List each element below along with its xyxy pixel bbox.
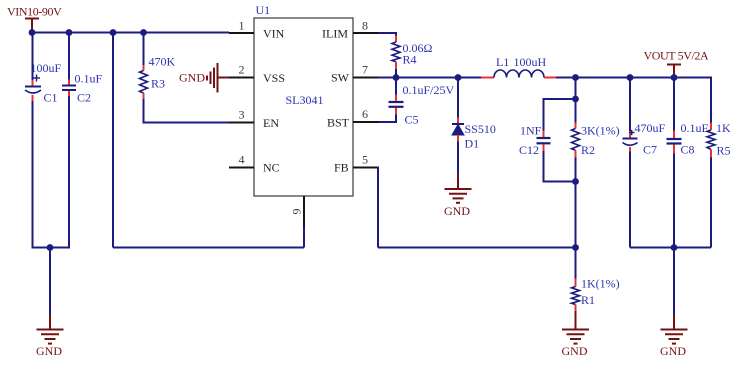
svg-text:0.1uF/25V: 0.1uF/25V: [403, 83, 455, 97]
svg-text:C2: C2: [77, 91, 91, 105]
node VOUT at L1: [572, 74, 579, 81]
svg-text:470K: 470K: [149, 55, 176, 69]
node SW at R4: [393, 74, 400, 81]
svg-text:R4: R4: [403, 53, 417, 67]
wire to ground left: [49, 248, 51, 316]
node C12 bottom: [572, 178, 579, 185]
svg-text:VOUT 5V/2A: VOUT 5V/2A: [644, 49, 710, 63]
svg-text:0.1uF: 0.1uF: [681, 121, 709, 135]
node VIN at down wire: [110, 29, 117, 36]
svg-text:3: 3: [239, 108, 245, 122]
resistor R3: [140, 33, 230, 123]
capacitor C12: [537, 98, 576, 183]
svg-text:1K: 1K: [716, 121, 731, 135]
wire bottom to pin 9: [113, 247, 304, 249]
pin 6 BST: [327, 107, 379, 130]
svg-text:1NF: 1NF: [520, 124, 542, 138]
svg-text:NC: NC: [263, 161, 280, 175]
svg-text:GND: GND: [179, 71, 205, 85]
pin 9 pad: [290, 196, 305, 227]
pin 7 SW: [331, 63, 378, 85]
svg-text:100uF: 100uF: [31, 61, 62, 75]
svg-text:C5: C5: [405, 113, 419, 127]
ground GND at VSS pin: [179, 63, 229, 93]
svg-text:R3: R3: [151, 77, 165, 91]
svg-text:3K(1%): 3K(1%): [581, 124, 620, 138]
node VOUT at C7: [627, 74, 634, 81]
svg-text:9: 9: [290, 209, 304, 215]
ground GND at R1: [562, 311, 590, 358]
svg-text:D1: D1: [465, 137, 480, 151]
svg-text:SS510: SS510: [465, 122, 496, 136]
pin 3 EN: [229, 108, 279, 131]
svg-text:GND: GND: [660, 344, 686, 358]
wire down to GND right: [673, 248, 675, 316]
svg-text:VIN: VIN: [263, 27, 285, 41]
svg-text:VIN10-90V: VIN10-90V: [7, 5, 62, 19]
svg-text:GND: GND: [36, 344, 62, 358]
svg-text:7: 7: [362, 63, 368, 77]
svg-text:C8: C8: [681, 143, 695, 157]
wire C1 C2 ground join: [32, 247, 71, 249]
ground GND at D1: [444, 173, 472, 218]
wire FB from pin 5: [378, 167, 576, 248]
svg-text:1: 1: [239, 19, 245, 33]
svg-text:0.1uF: 0.1uF: [75, 72, 103, 86]
svg-text:8: 8: [362, 19, 368, 33]
ground GND left: [36, 315, 64, 358]
svg-text:C7: C7: [643, 143, 657, 157]
capacitor C1: [25, 33, 41, 248]
svg-text:SW: SW: [331, 71, 350, 85]
node VIN at R3: [140, 29, 147, 36]
wire up to pin 9: [303, 226, 305, 248]
capacitor C5: [379, 78, 404, 123]
svg-text:4: 4: [239, 153, 245, 167]
net label VIN10-90V: [7, 5, 62, 19]
pin 8 ILIM: [322, 19, 378, 41]
svg-text:BST: BST: [327, 116, 350, 130]
svg-text:U1: U1: [256, 3, 271, 17]
svg-text:C1: C1: [44, 91, 58, 105]
svg-text:SL3041: SL3041: [286, 93, 324, 107]
ground GND right: [660, 315, 688, 358]
pin 1 VIN: [229, 19, 285, 41]
wire divider mid down: [575, 182, 577, 248]
wire C12 top branch: [544, 98, 576, 100]
wire VOUT down to divider: [575, 78, 577, 100]
svg-text:R5: R5: [717, 144, 731, 158]
resistor R2: [572, 99, 580, 182]
node output ground: [671, 244, 678, 251]
svg-text:ILIM: ILIM: [322, 27, 348, 41]
svg-text:EN: EN: [263, 116, 279, 130]
wire pin8 to R4: [378, 32, 396, 36]
svg-text:R2: R2: [581, 143, 595, 157]
node VIN at C1: [29, 29, 36, 36]
power port bar VOUT: [667, 65, 681, 78]
pin 5 FB: [334, 153, 378, 175]
svg-text:1K(1%): 1K(1%): [581, 277, 620, 291]
resistor R5: [707, 77, 715, 248]
svg-text:100uH: 100uH: [514, 55, 547, 69]
diode D1: [452, 78, 464, 174]
node FB junction: [572, 244, 579, 251]
node ground join: [47, 244, 54, 251]
resistor R4: [392, 36, 400, 78]
svg-text:R1: R1: [581, 293, 595, 307]
pin 2 VSS: [229, 63, 285, 86]
svg-text:GND: GND: [444, 204, 470, 218]
node VIN at C2: [66, 29, 73, 36]
resistor R1: [572, 248, 580, 312]
svg-text:470uF: 470uF: [635, 121, 666, 135]
op-amp U1 body: [254, 18, 353, 196]
pin 4 NC: [229, 153, 280, 175]
inductor L1: [481, 70, 556, 77]
svg-text:VSS: VSS: [263, 71, 285, 85]
node SW at D1: [455, 74, 462, 81]
capacitor C7: [623, 78, 638, 248]
wire output ground join: [630, 247, 711, 249]
svg-text:5: 5: [362, 153, 368, 167]
wire VIN down branch: [112, 33, 114, 248]
capacitor C8: [667, 78, 682, 248]
wire top rail VIN: [31, 32, 229, 34]
svg-text:FB: FB: [334, 161, 349, 175]
capacitor C2: [62, 33, 76, 248]
svg-text:GND: GND: [562, 344, 588, 358]
node C12 top: [572, 96, 579, 103]
node VOUT at C8: [671, 74, 678, 81]
wire L1 to VOUT rail: [556, 77, 711, 79]
svg-text:6: 6: [362, 107, 368, 121]
svg-text:C12: C12: [519, 143, 539, 157]
wire SW rail: [378, 77, 481, 79]
power port bar VIN: [25, 19, 39, 33]
svg-text:2: 2: [239, 63, 245, 77]
svg-text:L1: L1: [496, 55, 509, 69]
